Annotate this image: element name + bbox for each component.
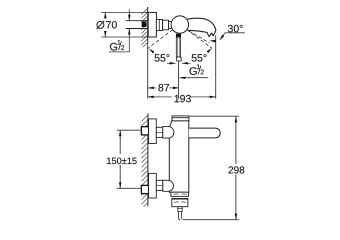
escutcheon rosette (top view) xyxy=(148,12,156,37)
supply pipe through wall (top view) xyxy=(126,20,148,22)
arrow at right dashed end xyxy=(207,47,213,53)
wall hatching (top view) xyxy=(141,8,147,47)
lever centreline extension xyxy=(178,61,180,98)
label Ø70 xyxy=(97,21,104,28)
neck (top view) xyxy=(169,22,172,29)
spout axis dashed line 30° xyxy=(189,31,210,43)
spout outline (top view) xyxy=(187,18,216,36)
mousseur housing (bottom view) xyxy=(172,199,188,207)
lower rosette (bottom view) xyxy=(149,173,157,198)
union nut (top view) xyxy=(156,19,162,30)
dimension 150±15 line and arrows xyxy=(119,130,121,154)
dimension Ø70 line and arrows xyxy=(104,12,106,18)
dimension 193 xyxy=(148,96,172,98)
outlet stub (bottom view) xyxy=(178,207,182,212)
label 55° right xyxy=(192,54,207,61)
dimension 298 extension lines xyxy=(190,115,239,117)
arrow at left dashed end xyxy=(148,48,154,54)
label 150±15 xyxy=(107,158,137,165)
top cap (bottom view) xyxy=(172,116,189,121)
wall section line (bottom view) xyxy=(147,114,149,207)
arc arrows at lever vertical position xyxy=(167,62,176,64)
upper supply pipe in wall (bottom view) xyxy=(141,127,148,135)
dimension Ø70 extension lines xyxy=(101,11,149,13)
label 55° left xyxy=(155,54,170,61)
valve body circle (top view) xyxy=(171,16,188,33)
water stream drip (bottom view) xyxy=(179,212,181,220)
label 30° with underline leader xyxy=(225,32,245,34)
lever swing dashed line right 55° xyxy=(187,30,212,49)
label G 1/2 lower with leader and arrow xyxy=(180,77,209,79)
wall section line (top view) xyxy=(147,7,149,44)
handle lever (bottom view) xyxy=(189,128,220,138)
upper S-union (bottom view) xyxy=(163,127,174,139)
dimension 298 line and arrows xyxy=(235,116,237,164)
dimension G1/2 (pipe thread) line and outside arrows xyxy=(128,10,130,21)
label G 1/2 upper with leader underline xyxy=(109,51,129,53)
lever handle (top view) xyxy=(176,34,181,37)
label 298 xyxy=(229,166,245,173)
wall face extension line xyxy=(147,44,149,98)
dimension 150±15 extension lines xyxy=(117,129,142,131)
lower union nut (bottom view) xyxy=(156,180,163,190)
connector cone (top view) xyxy=(163,20,169,30)
upper union nut (bottom view) xyxy=(156,127,163,137)
upper rosette (bottom view) xyxy=(149,119,157,144)
aerator ring band (bottom view) xyxy=(171,192,189,196)
lever swing dashed line left 55° xyxy=(147,30,172,49)
arrow at spout axis end xyxy=(209,40,215,43)
dimension 87 xyxy=(148,87,156,89)
lower supply pipe in wall (bottom view) xyxy=(141,185,148,193)
pipe section in wall (filled) xyxy=(142,21,147,27)
wall hatching (bottom view) xyxy=(142,115,148,207)
lower S-union (bottom view) xyxy=(163,180,174,191)
body cylinder (bottom view) xyxy=(169,121,189,192)
spout tip extension line xyxy=(215,35,217,98)
